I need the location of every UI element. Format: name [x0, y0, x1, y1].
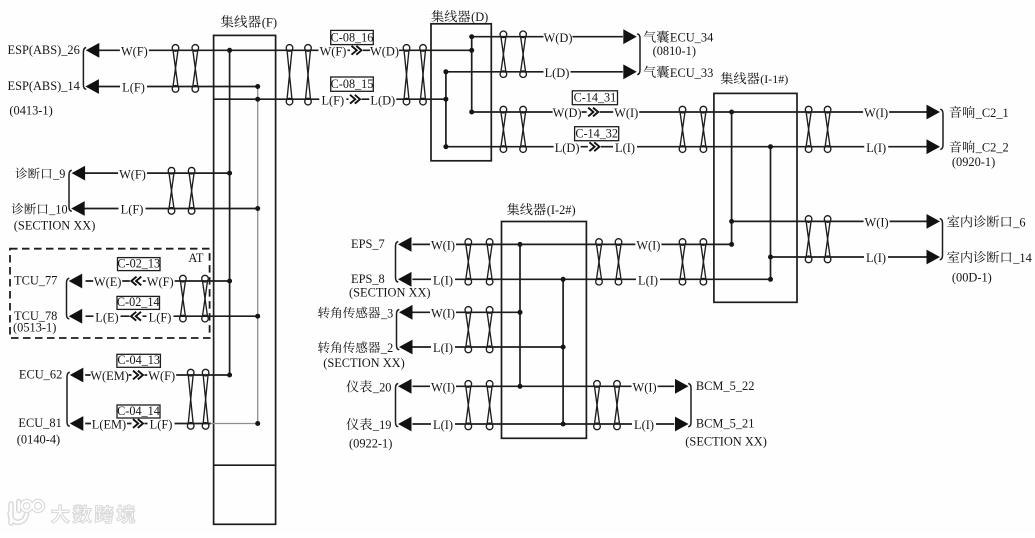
svg-text:_C2_2: _C2_2 [975, 141, 1009, 155]
pin arrow TCU_78 [69, 309, 83, 324]
pin arrow 转角传感器_3 [399, 305, 413, 320]
connector chevron C-02_14 [130, 311, 143, 322]
svg-text:L(F): L(F) [149, 310, 172, 324]
label L(F) ECU row [148, 418, 175, 429]
svg-text:AT: AT [188, 251, 204, 265]
junction node on I-2 bus B [561, 345, 566, 350]
label W(I) audio row [863, 106, 889, 117]
svg-text:TCU_77: TCU_77 [14, 274, 57, 288]
label W(I) EPS row [430, 239, 456, 250]
twisted pair TCU to hub F [180, 275, 187, 322]
wire W(I) EPS row [412, 243, 731, 245]
label 气囊ECU_33 [644, 66, 656, 78]
wire W(F) ESP row [99, 49, 230, 51]
wire W(E)/W(F) TCU row [86, 280, 230, 282]
junction node on F bus V1 [227, 171, 232, 176]
hub box 集线器(I-2#) [502, 222, 587, 439]
junction node on I-1 bus B [768, 277, 773, 282]
connector label C-02_13 [118, 258, 161, 271]
junction node on F bus V1 [227, 279, 232, 284]
svg-text:L(F): L(F) [150, 418, 173, 432]
hub D bus line B [445, 72, 447, 147]
svg-text:W(I): W(I) [864, 106, 888, 120]
svg-text:L(D): L(D) [555, 141, 580, 155]
svg-text:ESP(ABS)_26: ESP(ABS)_26 [8, 43, 80, 57]
label 集线器(F) [221, 15, 234, 28]
wire W(I) indoor diag row [732, 220, 928, 222]
pin arrow 诊断口_9 [72, 166, 86, 181]
svg-text:W(I): W(I) [431, 239, 455, 253]
svg-text:ECU_62: ECU_62 [19, 368, 62, 382]
junction node on D bus A [469, 34, 474, 39]
wire L(I) meter to BCM row [412, 423, 674, 425]
junction node on F bus V2 [255, 421, 260, 426]
connector label C-14_31 [572, 91, 617, 105]
dashed box AT (automatic transmission option) [10, 249, 210, 338]
label W(EM) ECU row [91, 369, 129, 380]
svg-text:EPS_7: EPS_7 [351, 237, 385, 251]
label 音响_C2_2 [950, 141, 962, 153]
connector label C-08_15 [331, 77, 374, 91]
junction node on F bus V2 [255, 84, 260, 89]
wire W(D)/W(I) hub D to audio [472, 111, 927, 113]
junction node on I-1 bus B [768, 144, 773, 149]
junction node on I-2 bus A [518, 242, 523, 247]
svg-text:C-08_15: C-08_15 [331, 77, 374, 91]
svg-text:ESP(ABS)_14: ESP(ABS)_14 [8, 79, 80, 93]
label 转角传感器_2 [318, 341, 330, 353]
label L(F) TCU row [147, 311, 174, 322]
device meter bracket [396, 384, 399, 427]
twisted pair into hub I-1 lower [679, 239, 686, 285]
wire W(I) meter to BCM row [412, 385, 674, 387]
label L(I) BCM run [632, 418, 656, 429]
svg-text:ECU_81: ECU_81 [18, 416, 61, 430]
junction node on F bus V2 [255, 206, 260, 211]
svg-text:W(F): W(F) [148, 369, 175, 383]
svg-text:W(D): W(D) [544, 31, 573, 45]
svg-text:_10: _10 [48, 203, 67, 217]
svg-text:W(I): W(I) [431, 307, 455, 321]
pin arrow EPS_8 [398, 272, 412, 287]
label W(D) airbag row [544, 31, 573, 42]
label 转角传感器_3 [318, 307, 330, 319]
watermark text 大数跨境 [51, 505, 69, 523]
label W(I) meter row [430, 381, 456, 392]
svg-text:(0922-1): (0922-1) [349, 437, 392, 451]
svg-text:BCM_5_22: BCM_5_22 [696, 379, 755, 393]
wire L(D) airbag row [446, 71, 623, 73]
svg-text:L(F): L(F) [321, 93, 344, 107]
label 音响_C2_1 [950, 106, 962, 118]
svg-text:W(I): W(I) [431, 381, 455, 395]
svg-text:_2: _2 [380, 341, 393, 355]
label W(F) TCU row [146, 275, 175, 286]
svg-text:(F): (F) [262, 16, 277, 30]
svg-text:W(D): W(D) [370, 45, 399, 59]
svg-text:L(D): L(D) [545, 66, 570, 80]
svg-text:_20: _20 [372, 380, 392, 394]
svg-text:_C2_1: _C2_1 [975, 106, 1009, 120]
svg-text:(I-1#): (I-1#) [760, 72, 788, 86]
hub I-2 bus line A [519, 244, 521, 386]
pin arrow ESP(ABS)_14 [85, 79, 99, 94]
junction node on F bus V1 [227, 48, 232, 53]
junction node on I-2 bus A [518, 384, 523, 389]
wire L(F) diag row [85, 208, 258, 210]
svg-text:(0513-1): (0513-1) [13, 321, 56, 335]
pin arrow BCM_5_21 [675, 417, 689, 432]
pin arrow 室内诊断口_6 [927, 214, 941, 229]
svg-text:L(D): L(D) [370, 93, 395, 107]
connector label C-14_32 [575, 127, 619, 141]
twisted pair diag to hub F [168, 167, 175, 214]
svg-text:(SECTION XX): (SECTION XX) [14, 218, 96, 232]
device BCM bracket [688, 384, 691, 427]
connector chevron C-14_31 [587, 106, 600, 117]
pin arrow ESP(ABS)_26 [86, 43, 100, 58]
svg-text:W(I): W(I) [633, 381, 657, 395]
junction node on F bus V2 [255, 314, 260, 319]
svg-text:L(I): L(I) [615, 141, 635, 155]
device ECU bracket [67, 372, 70, 426]
label 仪表_19 [346, 418, 358, 430]
connector label C-04_14 [117, 405, 160, 418]
junction node on I-1 bus A [729, 242, 734, 247]
connector chevron C-08_16 [350, 45, 363, 56]
svg-text:W(I): W(I) [865, 216, 889, 230]
twisted pair into hub D [403, 45, 410, 105]
svg-text:C-04_14: C-04_14 [117, 404, 160, 418]
device airbag ECU bracket [637, 34, 640, 75]
device ESP(ABS) bracket [83, 48, 86, 90]
svg-text:L(I): L(I) [433, 341, 453, 355]
svg-text:W(I): W(I) [636, 239, 660, 253]
svg-text:W(D): W(D) [553, 106, 582, 120]
pin arrow BCM_5_22 [675, 379, 689, 394]
svg-text:L(I): L(I) [433, 418, 453, 432]
svg-text:BCM_5_21: BCM_5_21 [696, 417, 755, 431]
svg-text:_19: _19 [372, 418, 392, 432]
label 室内诊断口_6 [947, 215, 959, 227]
svg-text:L(F): L(F) [121, 203, 144, 217]
wire W(EM)/W(F) ECU row [85, 374, 229, 376]
svg-text:ECU_33: ECU_33 [670, 66, 713, 80]
wire W(F) hub F to hub D [230, 49, 472, 51]
junction node on F bus V1 [227, 373, 232, 378]
pin arrow 音响_C2_2 [927, 139, 941, 154]
svg-text:(I-2#): (I-2#) [547, 203, 576, 217]
junction node on D bus A [469, 48, 474, 53]
junction node on D bus A [469, 110, 474, 115]
svg-text:L(EM): L(EM) [92, 418, 126, 432]
connector label C-08_16 [331, 30, 374, 44]
svg-text:_6: _6 [1012, 215, 1025, 229]
label 诊断口_10 [12, 203, 24, 215]
wire L(F)/L(D) hub F to hub D [214, 98, 446, 100]
label L(F) diag row [119, 203, 146, 214]
junction node on D bus B [443, 97, 448, 102]
twisted pair hub I-1 to audio [805, 106, 812, 152]
connector chevron C-04_14 [132, 418, 145, 429]
pin arrow 仪表_20 [398, 379, 412, 394]
hub box 集线器(F) [214, 35, 276, 524]
connector chevron C-14_32 [588, 141, 601, 152]
label 集线器(I-2#) [507, 203, 519, 215]
label W(I) BCM run [632, 381, 658, 392]
pin arrow ECU_81 [70, 416, 84, 431]
label W(D) D-I1 run [553, 106, 582, 117]
label W(F) F-D run [319, 45, 348, 56]
svg-text:(00D-1): (00D-1) [952, 271, 992, 285]
svg-text:L(I): L(I) [433, 274, 453, 288]
svg-text:L(I): L(I) [866, 141, 886, 155]
pin arrow 室内诊断口_14 [927, 250, 941, 265]
hub I-1 bus line B [770, 147, 772, 280]
label L(D) F-D run [369, 94, 396, 105]
svg-text:(SECTION XX): (SECTION XX) [323, 356, 405, 370]
svg-text:C-08_16: C-08_16 [331, 30, 374, 44]
junction node on I-2 bus B [561, 422, 566, 427]
junction node on I-2 bus A [518, 310, 523, 315]
svg-text:C-04_13: C-04_13 [117, 353, 160, 367]
hub box 集线器(D) [431, 24, 491, 161]
label 集线器(I-1#) [721, 72, 733, 84]
twisted pair hub I-2 upper output [596, 239, 603, 285]
svg-text:_14: _14 [1012, 251, 1032, 265]
svg-text:L(I): L(I) [634, 418, 654, 432]
twisted pair hub F output [286, 45, 293, 105]
label L(EM) ECU row [91, 418, 127, 429]
svg-text:L(F): L(F) [122, 81, 145, 95]
twisted pair into hub I-1 upper [679, 106, 686, 152]
label W(I) angle row [430, 307, 456, 318]
label 气囊ECU_34 [644, 31, 656, 43]
pin arrow 诊断口_10 [71, 201, 85, 216]
twisted pair hub D to airbag ECU [500, 31, 507, 77]
svg-text:L(I): L(I) [866, 251, 886, 265]
pin arrow ECU_62 [70, 368, 84, 383]
label 仪表_20 [346, 380, 358, 392]
svg-text:C-02_13: C-02_13 [117, 256, 160, 270]
device indoor diag bracket [940, 219, 943, 260]
twisted pair hub I-2 to BCM [594, 381, 601, 430]
label W(I) I2-I1 run [635, 239, 661, 250]
svg-text:(D): (D) [471, 10, 488, 24]
label L(D) airbag row [544, 66, 571, 77]
pin arrow 转角传感器_2 [399, 340, 413, 355]
junction node on I-1 bus B [768, 255, 773, 260]
svg-text:(SECTION XX): (SECTION XX) [685, 435, 767, 449]
svg-text:W(F): W(F) [320, 45, 347, 59]
connector label C-04_13 [117, 354, 160, 367]
twisted pair hub I-1 to indoor diag [805, 216, 812, 263]
device TCU bracket [67, 278, 70, 319]
label L(F) ESP row [120, 81, 147, 92]
twisted pair hub D lower output [500, 106, 507, 152]
svg-text:C-14_32: C-14_32 [575, 127, 618, 141]
wire L(I) EPS row [412, 278, 770, 280]
wire L(D)/L(I) hub D to audio [446, 146, 927, 148]
svg-text:(0140-4): (0140-4) [17, 433, 60, 447]
hub I-1 bus line A [731, 112, 733, 244]
wire W(D) airbag row [472, 36, 623, 38]
pin arrow 音响_C2_1 [927, 105, 941, 120]
label W(F) ECU row [147, 369, 176, 380]
svg-text:L(E): L(E) [95, 310, 118, 324]
svg-text:W(E): W(E) [94, 275, 122, 289]
pin arrow 气囊ECU_34 [623, 29, 637, 44]
twisted pair ECU to hub F [187, 369, 194, 429]
label L(I) D-I1 run [613, 141, 637, 152]
svg-text:_9: _9 [52, 167, 65, 181]
junction node on F bus V2 [255, 97, 260, 102]
svg-text:EPS_8: EPS_8 [351, 272, 385, 286]
junction node on I-1 bus A [729, 110, 734, 115]
label 集线器(D) [431, 10, 443, 22]
svg-text:C-02_14: C-02_14 [117, 295, 160, 309]
twisted pair angle sensor to hub I-2 [465, 307, 472, 353]
hub I-2 bus line B [562, 279, 564, 424]
svg-text:(0920-1): (0920-1) [952, 155, 995, 169]
connector chevron C-04_13 [132, 369, 145, 380]
twisted pair meter to hub I-2 [465, 381, 472, 430]
svg-text:W(F): W(F) [147, 275, 174, 289]
device audio bracket [940, 109, 943, 149]
wire L(EM)/L(F) ECU row [85, 423, 211, 425]
device diag port bracket [69, 170, 72, 211]
wire L(I) indoor diag row [771, 256, 928, 258]
hub box 集线器(I-1#) [714, 93, 797, 302]
label L(D) D-I1 run [554, 141, 581, 152]
junction node on I-2 bus B [561, 277, 566, 282]
label L(I) EPS row [431, 274, 455, 285]
svg-text:W(I): W(I) [614, 106, 638, 120]
hub F bus line V1 [229, 50, 231, 375]
label 室内诊断口_14 [947, 251, 959, 263]
hub F bus line V2 [257, 87, 259, 424]
wire W(F) diag row [85, 172, 230, 174]
label W(D) F-D run [370, 45, 399, 56]
label L(E) TCU row [94, 311, 121, 322]
label W(I) indoor row [864, 216, 890, 227]
hub F divider [214, 464, 276, 466]
wire W(I) angle sensor row [412, 311, 520, 313]
svg-text:(SECTION XX): (SECTION XX) [349, 286, 431, 300]
label L(I) angle row [431, 341, 455, 352]
label L(F) F-D run [319, 94, 346, 105]
label 诊断口_9 [15, 167, 27, 179]
label L(I) meter row [431, 418, 455, 429]
watermark logo K100 [10, 501, 43, 523]
device angle sensor bracket [397, 310, 400, 350]
connector label C-02_14 [117, 296, 160, 309]
wire L(I) angle sensor row [412, 346, 563, 348]
twisted pair EPS to hub I-2 [465, 239, 472, 285]
label L(I) I2-I1 run [636, 274, 660, 285]
pin arrow EPS_7 [398, 237, 412, 252]
label W(I) D-I1 run [613, 106, 639, 117]
wire L(E)/L(F) TCU row [86, 315, 258, 317]
connector chevron C-02_13 [130, 275, 143, 286]
svg-text:W(EM): W(EM) [90, 369, 129, 383]
label W(E) TCU row [93, 275, 122, 286]
label W(F) ESP row [120, 45, 149, 56]
hub D bus line A [471, 37, 473, 112]
svg-text:C-14_31: C-14_31 [574, 91, 617, 105]
label L(I) indoor row [864, 251, 888, 262]
svg-text:(0810-1): (0810-1) [653, 44, 696, 58]
label W(F) diag row [118, 167, 147, 178]
svg-text:W(F): W(F) [119, 167, 146, 181]
svg-text:_3: _3 [380, 306, 393, 320]
label L(I) audio row [864, 141, 888, 152]
twisted pair ESP to hub F [172, 45, 179, 93]
svg-text:ECU_34: ECU_34 [670, 31, 713, 45]
junction node on D bus B [443, 69, 448, 74]
pin arrow 仪表_19 [398, 417, 412, 432]
pin arrow TCU_77 [69, 274, 83, 289]
pin arrow 气囊ECU_33 [623, 64, 637, 79]
wire L(F) ESP row [99, 86, 258, 88]
svg-text:W(F): W(F) [121, 45, 148, 59]
connector chevron C-08_15 [349, 94, 362, 105]
svg-text:(0413-1): (0413-1) [9, 103, 52, 117]
svg-text:L(I): L(I) [638, 274, 658, 288]
junction node on D bus B [443, 144, 448, 149]
junction node on I-1 bus A [729, 219, 734, 224]
device EPS bracket [396, 242, 399, 283]
